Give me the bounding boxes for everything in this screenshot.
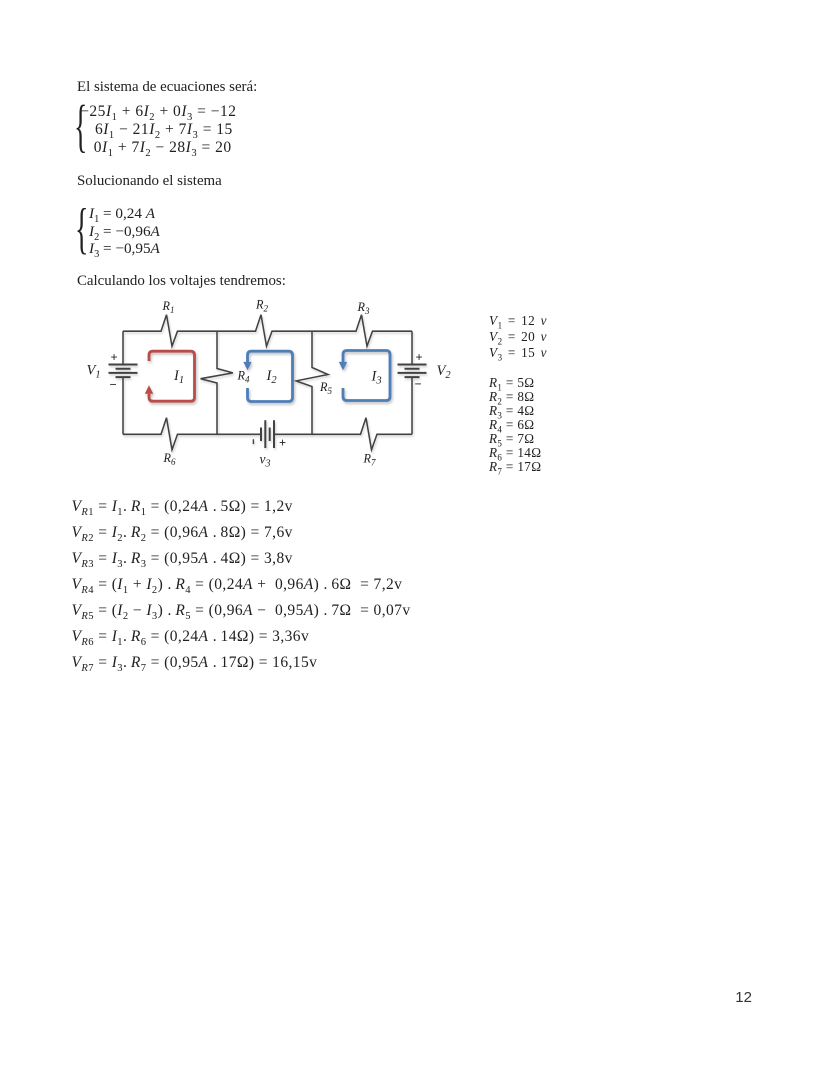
- svg-text:R1: R1: [162, 299, 175, 315]
- svg-text:−: −: [110, 378, 117, 392]
- svg-text:R3: R3: [357, 300, 370, 316]
- svg-text:+: +: [279, 436, 286, 450]
- svg-text:v3: v3: [260, 452, 271, 470]
- svg-text:R2: R2: [255, 298, 268, 314]
- svg-text:R4: R4: [237, 369, 250, 385]
- svg-text:V1: V1: [87, 363, 101, 381]
- svg-text:+: +: [416, 351, 423, 365]
- svg-text:I2: I2: [266, 368, 278, 386]
- svg-text:R6: R6: [163, 451, 176, 467]
- svg-text:V2: V2: [437, 363, 452, 381]
- svg-text:R7: R7: [363, 452, 376, 468]
- svg-text:+: +: [111, 351, 118, 365]
- svg-text:−: −: [415, 377, 422, 391]
- svg-text:R5: R5: [319, 380, 332, 396]
- svg-text:I1: I1: [173, 368, 184, 386]
- svg-text:I3: I3: [371, 369, 382, 387]
